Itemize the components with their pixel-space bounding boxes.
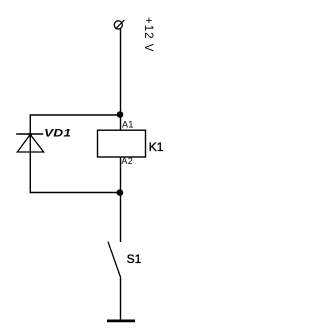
svg-text:+12 V: +12 V [142,17,154,52]
svg-text:K1: K1 [149,140,164,154]
svg-text:VD1: VD1 [44,127,71,140]
svg-text:S1: S1 [127,252,142,266]
svg-text:A2: A2 [121,156,133,166]
svg-text:A1: A1 [122,120,134,130]
